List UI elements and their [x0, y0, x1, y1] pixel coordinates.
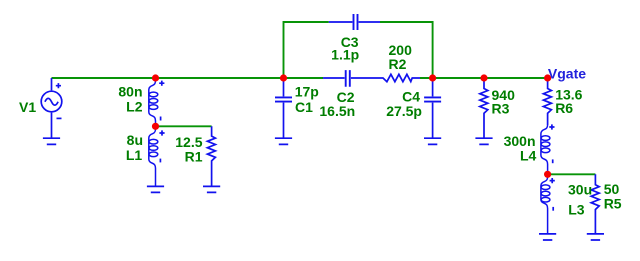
wire L1/L2 node to R1 [156, 125, 212, 127]
capacitor C4 [424, 81, 441, 138]
svg-text:27.5p: 27.5p [386, 103, 422, 119]
node C1/C3 [280, 74, 287, 81]
capacitor C2 (series in main branch) [323, 70, 373, 87]
svg-text:L1: L1 [126, 147, 143, 163]
svg-text:R1: R1 [185, 149, 203, 165]
node L2 top [152, 74, 159, 81]
svg-text:8u: 8u [127, 132, 143, 148]
node Vgate [544, 74, 551, 81]
node L1/L2 [152, 123, 159, 130]
svg-text:L4: L4 [520, 147, 537, 163]
svg-text:16.5n: 16.5n [319, 103, 355, 119]
svg-text:17p: 17p [295, 83, 319, 99]
svg-text:L3: L3 [568, 201, 585, 217]
resistor R2 [373, 74, 420, 81]
svg-text:Vgate: Vgate [548, 66, 586, 82]
inductor L2 [149, 80, 165, 124]
svg-text:1.1p: 1.1p [331, 47, 359, 63]
svg-text:R6: R6 [555, 100, 573, 116]
wire C3 branch right vertical [380, 22, 433, 78]
svg-text:30u: 30u [568, 182, 592, 198]
wire L4/L3 node to R5 [548, 173, 596, 175]
node R3 [480, 74, 487, 81]
voltage source V1 [41, 78, 62, 138]
node L4/L3 [544, 171, 551, 178]
inductor L4 [541, 124, 555, 171]
svg-text:R3: R3 [492, 100, 510, 116]
ground below V1 [43, 138, 60, 144]
wire R2 right lead to Vgate node [420, 77, 548, 79]
resistor R6 [543, 78, 551, 125]
svg-text:L2: L2 [126, 98, 143, 114]
resistor R5 [591, 174, 599, 234]
inductor L3 [541, 176, 555, 234]
node C4/C3 [429, 74, 436, 81]
ground below L3 [539, 234, 556, 240]
wire C3 branch left vertical [284, 22, 329, 78]
svg-text:80n: 80n [118, 84, 142, 100]
ground below R3 [475, 138, 492, 144]
ground below R1 [203, 186, 220, 192]
node junction dots [152, 74, 551, 177]
ground below L1 [147, 186, 164, 192]
resistor R3 [480, 78, 488, 138]
ground below C4 [424, 138, 441, 144]
wire main horizontal net from V1 to C2 [52, 22, 596, 174]
svg-text:R2: R2 [389, 56, 407, 72]
capacitor C1 [275, 81, 292, 138]
svg-text:C4: C4 [402, 88, 420, 104]
ground below C1 [275, 138, 292, 144]
resistor R1 [207, 126, 215, 186]
inductor L1 [149, 128, 165, 186]
svg-text:R5: R5 [604, 195, 622, 211]
ground below R5 [587, 234, 604, 240]
svg-text:V1: V1 [19, 99, 36, 115]
capacitor C3 (top branch) [329, 21, 380, 23]
svg-text:C1: C1 [295, 99, 313, 115]
